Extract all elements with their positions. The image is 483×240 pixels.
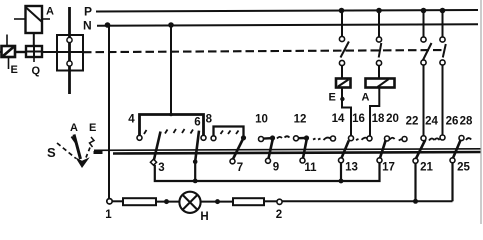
svg-text:8: 8: [206, 114, 213, 126]
svg-text:A: A: [362, 92, 370, 104]
svg-text:11: 11: [304, 162, 317, 174]
svg-text:S: S: [47, 145, 56, 160]
svg-text:22: 22: [406, 116, 419, 128]
svg-text:P: P: [84, 5, 92, 19]
svg-text:E: E: [11, 64, 18, 76]
svg-text:25: 25: [457, 162, 470, 174]
svg-text:9: 9: [273, 162, 279, 174]
svg-text:2: 2: [276, 209, 282, 221]
svg-text:H: H: [200, 211, 208, 223]
svg-text:16: 16: [352, 113, 365, 125]
svg-text:E: E: [89, 122, 96, 134]
svg-text:N: N: [83, 19, 92, 33]
svg-text:26: 26: [446, 116, 459, 128]
svg-text:7: 7: [237, 162, 243, 174]
svg-text:14: 14: [332, 113, 345, 125]
svg-text:28: 28: [460, 116, 473, 128]
svg-text:6: 6: [194, 117, 200, 129]
svg-text:1: 1: [105, 209, 112, 221]
svg-text:13: 13: [345, 162, 358, 174]
svg-text:E: E: [329, 92, 336, 104]
svg-text:10: 10: [255, 114, 268, 126]
svg-text:20: 20: [386, 113, 399, 125]
svg-text:17: 17: [382, 162, 395, 174]
svg-text:18: 18: [372, 113, 385, 125]
svg-text:A: A: [46, 6, 54, 18]
svg-text:3: 3: [158, 162, 164, 174]
svg-text:24: 24: [425, 116, 438, 128]
svg-text:A: A: [70, 122, 78, 134]
svg-text:21: 21: [420, 162, 433, 174]
svg-text:12: 12: [294, 114, 307, 126]
svg-text:4: 4: [128, 114, 135, 126]
svg-text:Q: Q: [32, 65, 41, 77]
